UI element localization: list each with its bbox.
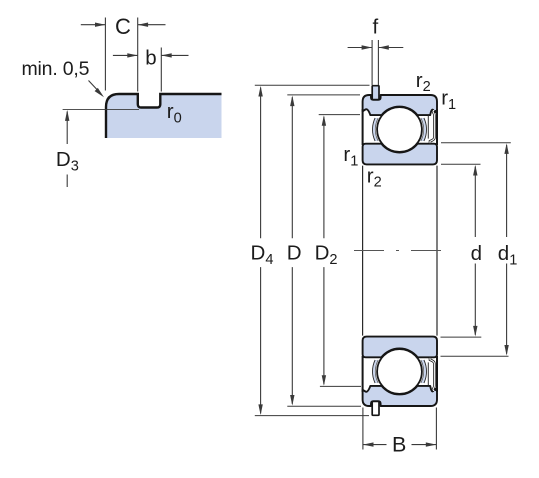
svg-text:B: B [392, 432, 406, 456]
svg-text:C: C [115, 14, 131, 39]
C extension line right [137, 18, 139, 92]
d dimension line [474, 167, 476, 335]
bottom snap ring [372, 401, 379, 415]
f dimension line right [378, 47, 403, 49]
B extension left [362, 408, 364, 450]
min 0,5 leader arrow [89, 81, 99, 91]
D4 dimension line [260, 88, 262, 414]
dimension b line left [113, 54, 138, 56]
D3 groove-bottom reference line [63, 108, 139, 110]
D3 line continuation below label [66, 175, 68, 188]
f extension lines [371, 40, 373, 85]
D3 arrow line [66, 112, 68, 145]
detail block outline (top profile with groove) [106, 94, 222, 138]
bottom half section (mirrored) [363, 337, 437, 406]
svg-text:r1: r1 [441, 87, 456, 113]
D4 extension top [255, 84, 370, 86]
svg-text:min. 0,5: min. 0,5 [22, 58, 90, 80]
bore silhouette line left [362, 166, 364, 336]
svg-text:D3: D3 [56, 148, 79, 174]
top half section [363, 95, 437, 164]
d1 extension top [441, 142, 511, 144]
svg-text:f: f [373, 16, 379, 39]
svg-text:d1: d1 [498, 242, 518, 268]
f dimension line left [348, 47, 372, 49]
outer ring groove detail block fill [106, 94, 222, 138]
centre line [354, 250, 446, 252]
svg-text:r1: r1 [343, 143, 358, 169]
d extension top [441, 163, 481, 165]
svg-text:d: d [471, 242, 482, 265]
D2 extension bottom [320, 385, 361, 387]
top snap ring [372, 86, 379, 100]
svg-text:r2: r2 [367, 164, 382, 190]
b extension line right [160, 48, 162, 92]
D2 extension top [319, 114, 360, 116]
dimension b line right [161, 54, 188, 56]
dimension C line left [81, 24, 106, 26]
D extension top [287, 94, 360, 96]
svg-text:D: D [287, 242, 302, 265]
D dimension line [291, 97, 293, 404]
B extension right [435, 408, 437, 450]
dimension C line right [138, 24, 166, 26]
svg-text:r2: r2 [416, 69, 431, 95]
D2 dimension line [323, 117, 325, 384]
svg-text:b: b [145, 47, 156, 70]
d1 dimension line [506, 145, 508, 354]
D4 extension bottom [255, 415, 369, 417]
C extension line left [104, 18, 106, 91]
svg-text:D2: D2 [315, 242, 338, 268]
bore silhouette line right [436, 166, 438, 336]
d extension bottom [441, 336, 482, 338]
B dimension line [363, 444, 437, 446]
svg-text:D4: D4 [251, 242, 274, 268]
d1 extension bottom [441, 355, 509, 357]
D extension bottom [287, 405, 361, 407]
